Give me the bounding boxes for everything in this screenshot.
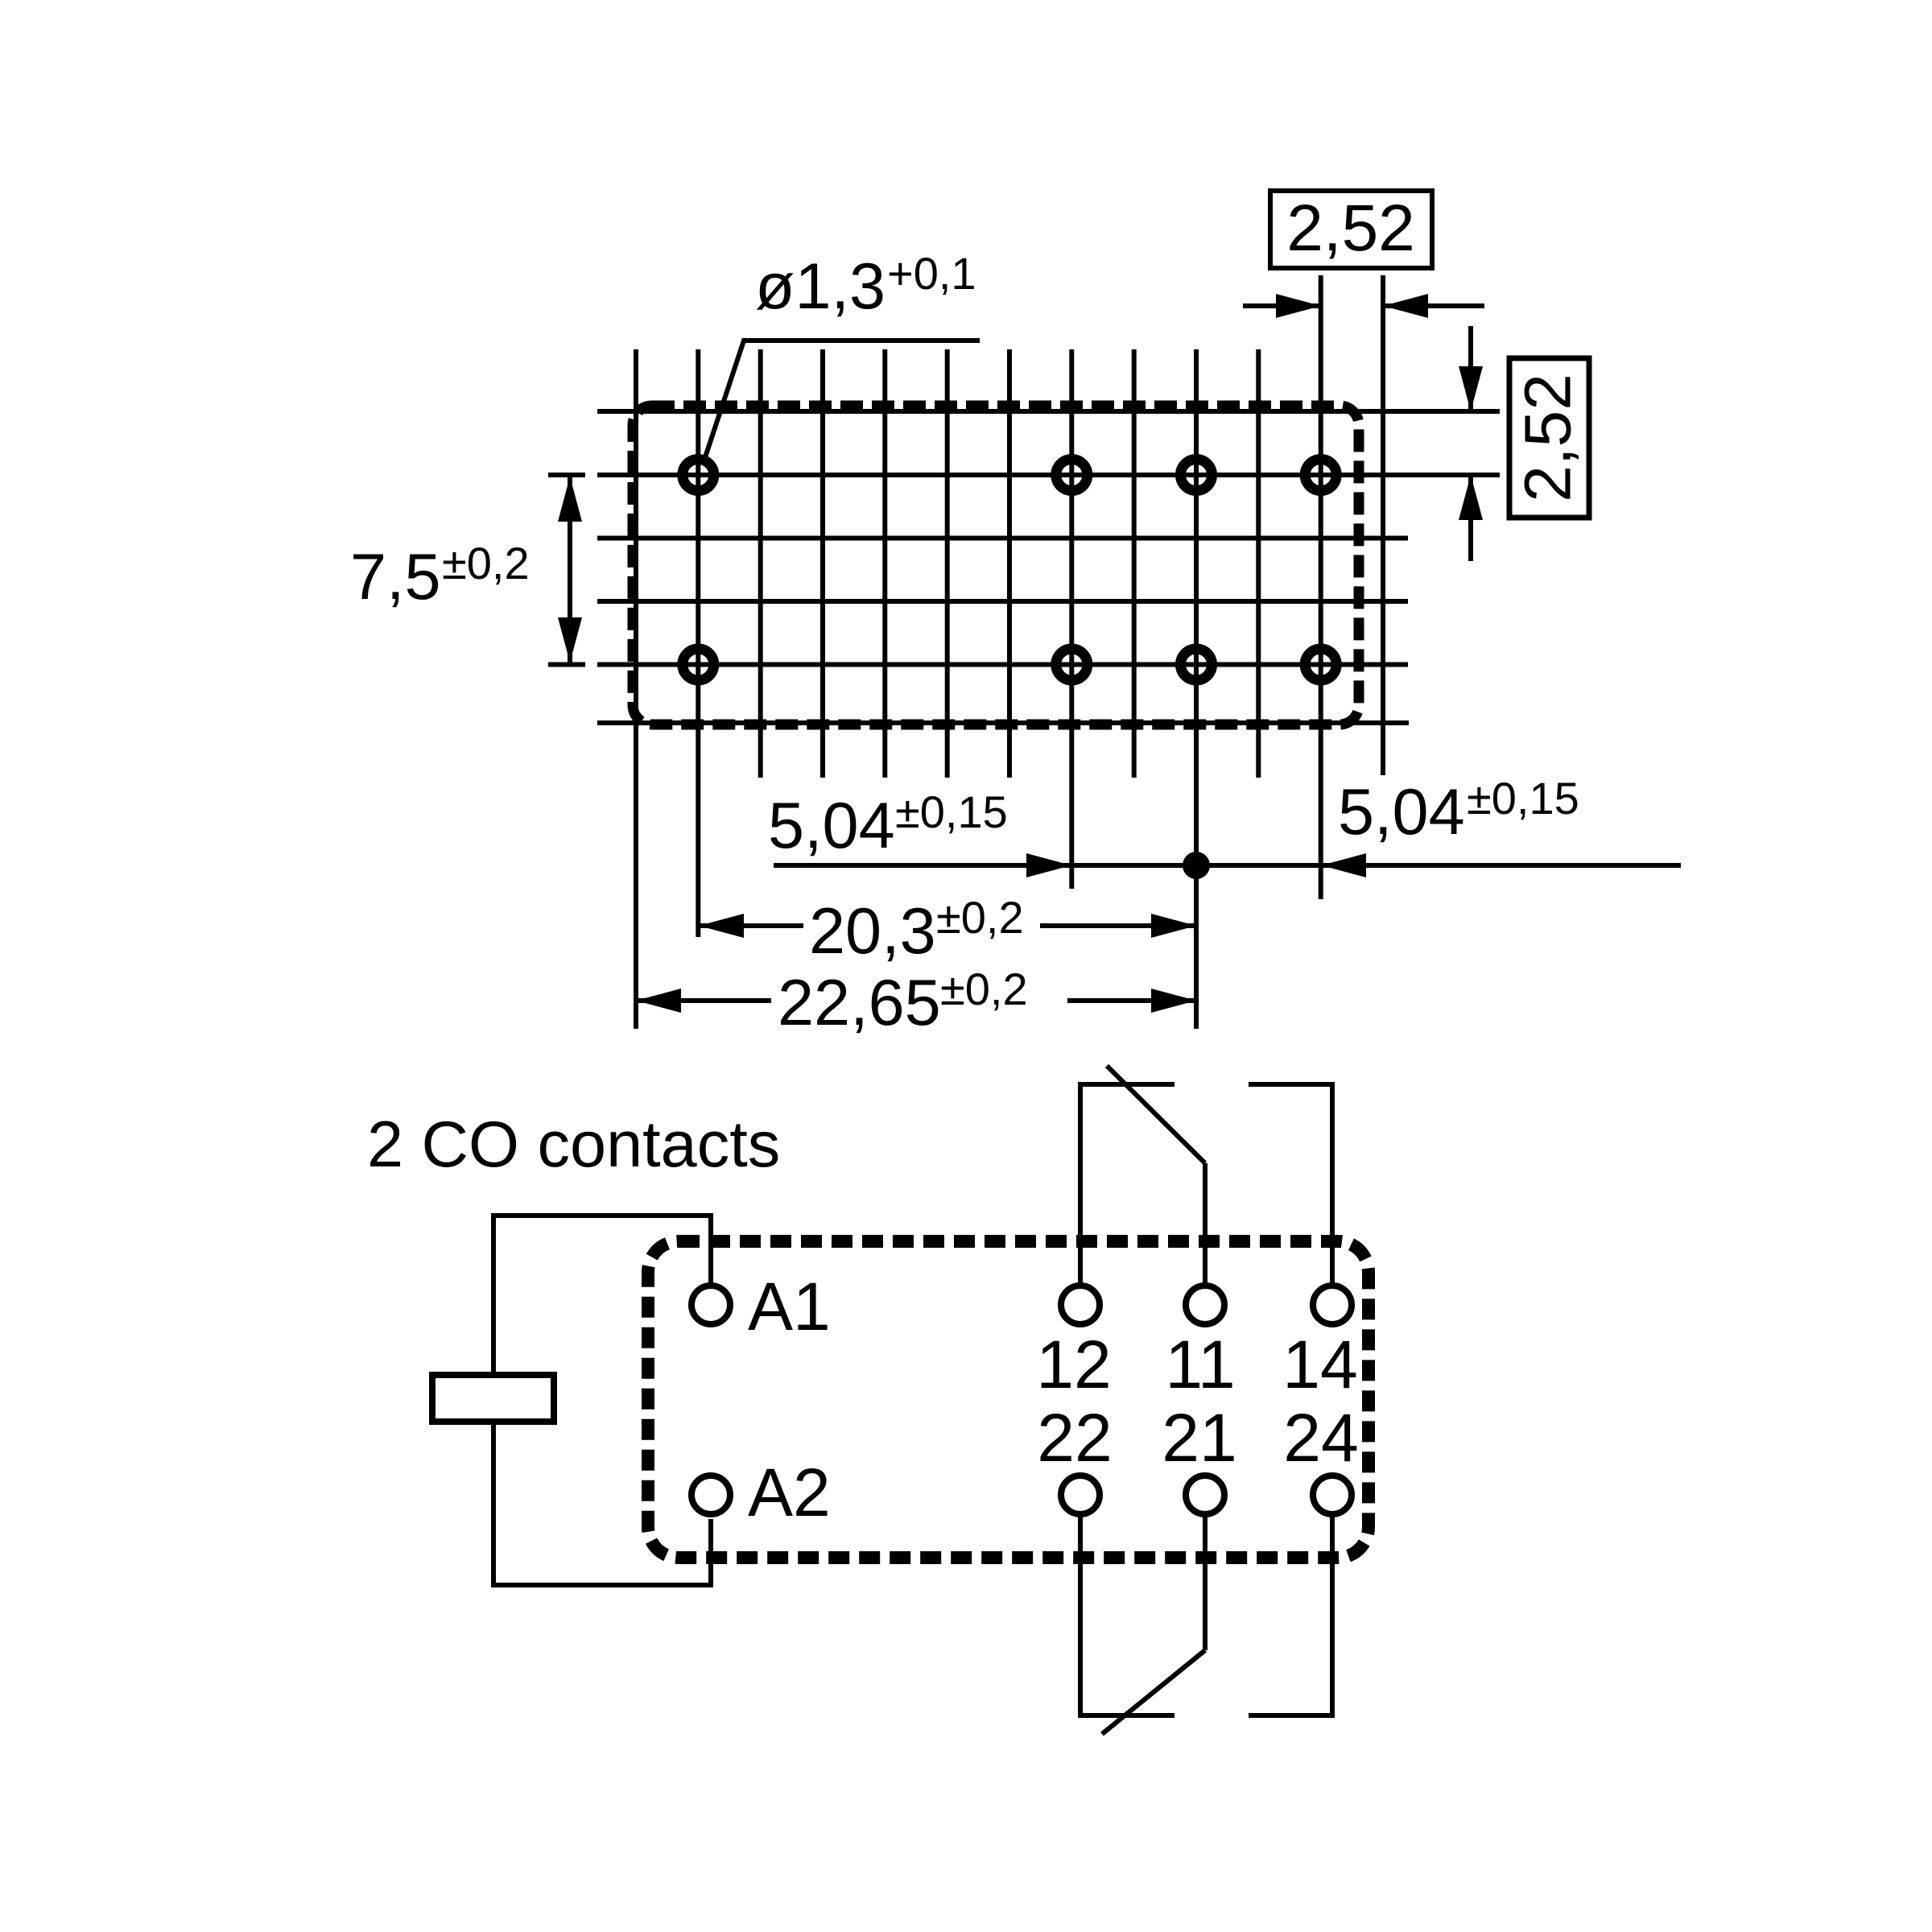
svg-text:22,65: 22,65 (778, 967, 941, 1039)
arrowhead 5,04 right pointing left (1321, 853, 1366, 877)
arrowhead 2,52 top pointing right (1276, 294, 1321, 318)
pin 11 terminal circle (1186, 1286, 1224, 1324)
switch blade contact 21-22 (1102, 1650, 1205, 1734)
wire extension tick row4 left (548, 663, 585, 667)
svg-text:+0,1: +0,1 (887, 248, 976, 299)
svg-text:A2: A2 (748, 1455, 831, 1530)
wire grid horizontal row1 (upper pin row) (597, 473, 1500, 477)
dimension line right 2,52 lower (1468, 475, 1473, 561)
wire extension tick row1 left (548, 473, 585, 477)
svg-text:2,52: 2,52 (1512, 374, 1585, 502)
frame of top 2,52 dimension box (1270, 191, 1432, 268)
svg-text:12: 12 (1036, 1327, 1111, 1402)
dimension line right 2,52 upper (1468, 326, 1473, 411)
arrowhead 22,65 pointing left (636, 989, 681, 1013)
switch blade contact 11-12 (1107, 1066, 1205, 1163)
svg-text:A1: A1 (748, 1269, 831, 1344)
wire grid vertical line col5 (882, 349, 887, 778)
pin A2 terminal circle (691, 1476, 730, 1514)
svg-text:5,04: 5,04 (768, 790, 895, 862)
wire grid vertical line col9 (1132, 349, 1137, 778)
wire grid horizontal row4 (lower pin row) (597, 663, 1408, 667)
wire grid vertical line col1 (634, 349, 638, 1029)
wire grid vertical line col4 (820, 349, 825, 778)
arrowhead 2,52 top pointing left (1383, 294, 1428, 318)
wire grid vertical line col10 (pin column 3) (1194, 349, 1199, 1029)
arrowhead 5,04 left pointing right (1026, 853, 1071, 877)
wire coil top to A1 (493, 1216, 711, 1372)
dimension line 7,5 vertical (568, 475, 572, 665)
pin hole 3 (1181, 460, 1212, 491)
svg-text:2 CO contacts: 2 CO contacts (367, 1108, 780, 1181)
pin hole 2 (1056, 460, 1088, 491)
junction dot of chained 5,04 dimensions (1183, 852, 1210, 879)
wire grid vertical line col2 (pin column 1) (696, 349, 700, 937)
pin 22 terminal circle (1061, 1476, 1100, 1514)
wire grid horizontal row5 (597, 720, 1409, 725)
wire pin 22 down with NC bracket (1080, 1514, 1174, 1715)
wire pin 24 down with NO bracket (1249, 1514, 1332, 1715)
wire grid vertical line col13 (1381, 275, 1385, 775)
svg-text:±0,2: ±0,2 (940, 964, 1028, 1014)
pin hole 7 (1181, 649, 1212, 680)
pin A1 terminal circle (691, 1286, 730, 1324)
wire grid vertical line col6 (945, 349, 950, 778)
wire grid vertical line col8 (pin column 2) (1069, 349, 1074, 889)
svg-text:±0,15: ±0,15 (895, 786, 1008, 837)
coil K1 (432, 1375, 554, 1422)
svg-text:11: 11 (1165, 1327, 1235, 1402)
svg-text:20,3: 20,3 (809, 895, 936, 968)
pin hole 8 (1305, 649, 1336, 680)
wire pin 14 up with NO bracket (1249, 1084, 1332, 1286)
dimension chain line 5,04 + 5,04 (774, 863, 1681, 868)
wire grid horizontal row3 (597, 599, 1408, 604)
dimension line 2,52 top right part (1383, 303, 1484, 308)
arrowhead 22,65 pointing right (1151, 989, 1196, 1013)
svg-text:24: 24 (1283, 1400, 1358, 1476)
pin 21 terminal circle (1186, 1476, 1224, 1514)
svg-text:±0,15: ±0,15 (1467, 773, 1579, 824)
svg-text:22: 22 (1037, 1400, 1112, 1476)
pin hole 4 (1305, 460, 1336, 491)
svg-text:±0,2: ±0,2 (442, 538, 530, 588)
dimension line 22,65 right segment (1067, 998, 1196, 1003)
pin hole 5 bottom-left (683, 649, 714, 680)
svg-text:2,52: 2,52 (1286, 192, 1415, 265)
wire coil bottom to A2 (493, 1425, 711, 1585)
leader line for hole diameter label (705, 341, 980, 457)
wire grid horizontal row2 (597, 536, 1408, 541)
relay schematic outline (dashed) (648, 1241, 1368, 1558)
dimension line 22,65 left segment (636, 998, 771, 1003)
svg-text:5,04: 5,04 (1338, 776, 1465, 848)
wire grid vertical line col12 (pin column 4) (1319, 275, 1323, 899)
arrowhead 20,3 pointing left (699, 914, 744, 938)
wire grid vertical line col7 (1007, 349, 1012, 778)
wire grid vertical line col3 (758, 349, 763, 778)
frame of right 2,52 dimension box (1509, 358, 1589, 518)
dimension line 2,52 top left part (1243, 303, 1321, 308)
wire grid horizontal row0 (597, 409, 1500, 414)
arrowhead 7,5 pointing up (558, 477, 582, 522)
pin 12 terminal circle (1061, 1286, 1100, 1324)
wire pin 11 up (common) (1203, 1163, 1207, 1286)
pin 24 terminal circle (1313, 1476, 1352, 1514)
svg-text:14: 14 (1282, 1327, 1357, 1402)
arrowhead right 2,52 pointing down (1459, 366, 1483, 411)
wire pin 12 up with NC bracket (1080, 1084, 1174, 1286)
arrowhead 7,5 pointing down (558, 617, 582, 663)
pin hole 6 (1056, 649, 1088, 680)
arrowhead right 2,52 pointing up (1459, 475, 1483, 520)
svg-text:ø1,3: ø1,3 (755, 250, 885, 323)
svg-text:±0,2: ±0,2 (936, 892, 1024, 943)
relay footprint outline (dashed) (633, 406, 1359, 724)
pin 14 terminal circle (1313, 1286, 1352, 1324)
arrowhead 20,3 pointing right (1151, 914, 1196, 938)
wire grid vertical line col11 (1256, 349, 1261, 778)
svg-text:7,5: 7,5 (350, 541, 441, 613)
dimension line 20,3 left segment (698, 923, 803, 928)
pin hole 1 top-left (683, 460, 714, 491)
wire pin 21 down (common) (1203, 1514, 1207, 1650)
dimension line 20,3 right segment (1040, 923, 1196, 928)
svg-text:21: 21 (1162, 1400, 1236, 1476)
